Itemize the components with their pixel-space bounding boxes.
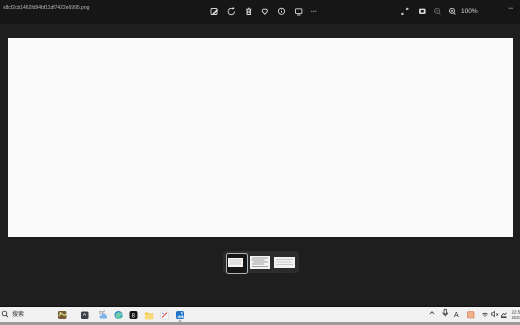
svg-text:22:54: 22:54 xyxy=(512,310,520,315)
svg-text:搜索: 搜索 xyxy=(12,310,24,318)
svg-text:2023/: 2023/ xyxy=(512,315,520,320)
svg-text:A: A xyxy=(454,312,459,319)
